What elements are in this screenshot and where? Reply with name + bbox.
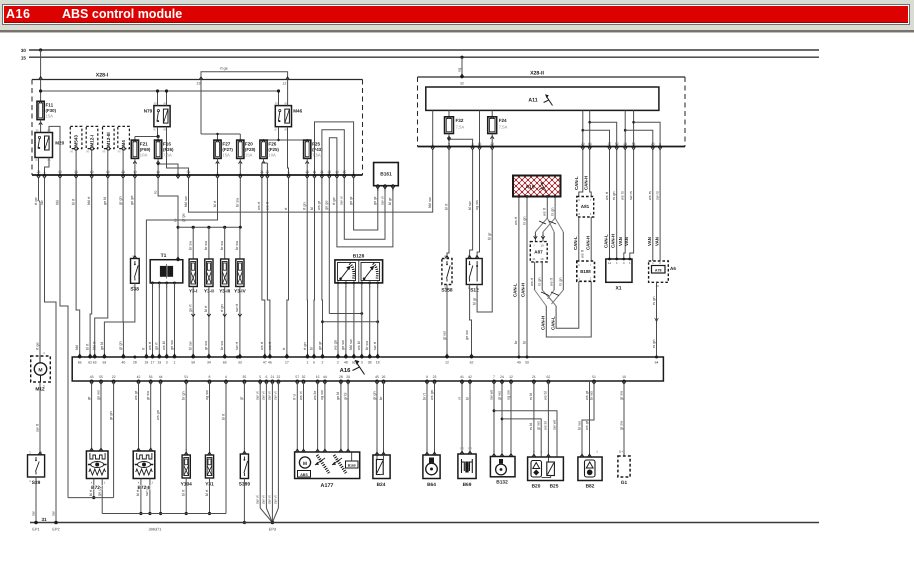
svg-text:ws gn: ws gn: [333, 340, 337, 350]
svg-text:(2): (2): [460, 447, 463, 450]
wire M4 to X28-I pin 29: [122, 149, 124, 175]
sensor B64: [423, 455, 440, 488]
svg-text:87: 87: [153, 128, 157, 132]
svg-text:ge gr: ge gr: [349, 196, 353, 205]
wire valve bus to Y3-III: [220, 226, 226, 259]
wire maze pin 21 to strip pin 2 with tee to B128: [317, 178, 379, 357]
pin row X28-II bottom edge: [431, 142, 662, 150]
svg-text:gn sw: gn sw: [170, 340, 174, 350]
ground EP2: [52, 521, 59, 532]
svg-text:F11: F11: [46, 103, 54, 108]
svg-text:41: 41: [460, 375, 464, 379]
svg-text:63: 63: [588, 142, 592, 146]
wire M46 pin 6 to strip pin 17: [282, 178, 289, 357]
wire F32 to X28-II pins 9 and 8: [448, 134, 473, 147]
svg-text:ws bl: ws bl: [162, 341, 166, 350]
svg-text:96: 96: [70, 150, 74, 154]
svg-text:og sw: og sw: [205, 390, 209, 400]
svg-text:51: 51: [184, 375, 188, 379]
svg-text:G1: G1: [621, 480, 628, 486]
svg-text:VAN: VAN: [618, 237, 623, 246]
svg-text:15A: 15A: [46, 114, 54, 119]
wire A11 to X28-II pin 1: [432, 110, 434, 146]
wire B128 pin to strip pin 48: [341, 283, 348, 357]
sensor pair B20 B25: [528, 451, 564, 490]
wire CAN-H to X1: [611, 150, 617, 259]
svg-text:23: 23: [433, 375, 437, 379]
svg-text:gn rt: gn rt: [155, 341, 159, 350]
hydraulic modulator A177: [295, 449, 360, 489]
wire og from bus 15 to X28-II pin 32: [458, 57, 464, 85]
svg-text:sw vi: sw vi: [340, 196, 344, 205]
wire B128 pin to strip pin 18: [373, 283, 380, 357]
wire from bus 30 to X28-I pin: [39, 50, 43, 80]
wire twisted stub into A87: [534, 232, 545, 242]
svg-text:ws rt: ws rt: [549, 277, 553, 286]
wire strip to A177: [336, 381, 343, 452]
separator line: [0, 30, 914, 32]
svg-text:ws gr: ws gr: [317, 200, 321, 210]
wire hbl sw long link X28-II pin 1 to X28-I pin 51: [184, 150, 433, 212]
svg-text:F25: F25: [312, 141, 320, 146]
svg-text:rs gn: rs gn: [522, 217, 526, 225]
svg-text:10A: 10A: [268, 153, 276, 158]
svg-text:hbl rt: hbl rt: [87, 196, 91, 205]
svg-text:11: 11: [313, 170, 317, 174]
svg-text:B64: B64: [427, 482, 436, 488]
sensor B82: [578, 451, 602, 490]
svg-text:B69: B69: [463, 482, 472, 488]
svg-text:hbl sw: hbl sw: [428, 197, 432, 208]
svg-text:VAN: VAN: [624, 237, 629, 246]
wire strip pin 26 to B24: [379, 381, 386, 455]
svg-text:sw vi: sw vi: [256, 495, 260, 504]
svg-text:21: 21: [271, 375, 275, 379]
svg-text:2: 2: [548, 451, 550, 454]
svg-text:rs gn: rs gn: [652, 340, 656, 348]
svg-text:B161: B161: [380, 172, 392, 178]
svg-text:bl rt: bl rt: [71, 198, 75, 205]
wire S38 to strip pin 40: [119, 283, 135, 357]
svg-text:20: 20: [581, 142, 585, 146]
pin row X28-I bottom edge: [37, 170, 356, 178]
svg-text:hbl rt: hbl rt: [93, 341, 97, 350]
svg-text:ws bl: ws bl: [544, 421, 548, 430]
svg-text:gr gn: gr gn: [109, 411, 113, 420]
pin X28-II top edge 32: [461, 76, 464, 79]
wire F27 to X28-I pin 1: [217, 158, 219, 175]
svg-text:24: 24: [500, 375, 504, 379]
svg-text:(F25): (F25): [268, 147, 279, 152]
svg-text:(F27): (F27): [222, 147, 233, 152]
svg-text:bl gr: bl gr: [472, 297, 476, 305]
svg-text:VAN: VAN: [654, 237, 659, 246]
svg-text:2: 2: [322, 361, 324, 365]
wire bus 30: [21, 48, 819, 53]
wire B128 pin to strip pin 38: [365, 283, 372, 357]
svg-text:3: 3: [40, 451, 42, 455]
svg-text:22: 22: [112, 375, 116, 379]
svg-text:rt ge: rt ge: [332, 197, 336, 205]
wire CAN-H from A16 to strip pin 50: [520, 197, 527, 358]
wire shield bus to strip pin 22: [68, 381, 114, 498]
svg-text:rs bl: rs bl: [529, 423, 533, 430]
svg-text:12: 12: [283, 82, 287, 86]
wire B72-I pin 4 to shield bus: [89, 479, 95, 500]
diagnosis switch S39: [28, 451, 45, 487]
wire link B132 to B20/B25 pin 3: [502, 419, 541, 457]
svg-text:sw rs: sw rs: [655, 191, 659, 200]
speed sensor B132: [490, 457, 515, 486]
svg-text:bl: bl: [465, 397, 469, 400]
svg-text:ge bl: ge bl: [100, 342, 104, 350]
wire A81 to B188 pair: [573, 217, 591, 261]
wire maze pin 11 to strip pin 6: [309, 178, 316, 357]
wire M12 to switch S39: [35, 382, 42, 455]
ABS control module A16 connector strip: [72, 356, 663, 385]
svg-text:14: 14: [608, 261, 612, 265]
svg-text:3: 3: [151, 481, 153, 484]
svg-text:47: 47: [263, 361, 267, 365]
wire S12 pin 1 to strip pin 62: [465, 285, 473, 358]
svg-text:96: 96: [102, 150, 106, 154]
svg-text:1: 1: [581, 451, 583, 454]
svg-text:37: 37: [608, 142, 612, 146]
wire valve supply bus: [178, 213, 241, 227]
svg-text:F27: F27: [222, 141, 230, 146]
svg-text:M4: M4: [121, 140, 126, 147]
svg-text:rt gn: rt gn: [303, 342, 307, 350]
wire bus 31: [30, 517, 819, 523]
svg-text:hbl sw: hbl sw: [349, 339, 353, 350]
svg-text:sw rt: sw rt: [235, 341, 239, 350]
wire Y3-I to strip pin 58: [189, 287, 196, 358]
gateway A81: [577, 197, 594, 218]
svg-text:1: 1: [307, 361, 309, 365]
label B72-II: [137, 485, 151, 491]
sensor B69: [458, 454, 476, 488]
wire A87 down pair: [530, 262, 542, 290]
wheel speed sensor B72-II: [133, 451, 155, 479]
svg-text:B24: B24: [377, 482, 386, 488]
svg-text:38: 38: [368, 361, 372, 365]
svg-text:ge gr: ge gr: [318, 341, 322, 350]
svg-text:18: 18: [376, 361, 380, 365]
wire strip pin 51 to valve Y104: [182, 381, 189, 455]
svg-text:bl rt: bl rt: [213, 200, 217, 207]
svg-text:rt vi: rt vi: [293, 394, 297, 400]
svg-text:20: 20: [346, 375, 350, 379]
svg-text:54: 54: [632, 142, 636, 146]
svg-text:19: 19: [540, 244, 544, 248]
svg-text:ge sw: ge sw: [465, 330, 469, 340]
svg-text:gr ws: gr ws: [537, 421, 541, 430]
wire jumper loop 2 inside X28-I: [322, 130, 344, 175]
svg-text:CAN-H: CAN-H: [611, 234, 616, 248]
svg-text:17: 17: [285, 361, 289, 365]
svg-text:2: 2: [501, 450, 503, 453]
wire strip pin 10 to generator G1: [619, 381, 624, 456]
brake light switch S38: [130, 254, 139, 292]
svg-text:bl: bl: [310, 207, 314, 210]
wire sw X28-I pin 4 to ground EP2: [40, 178, 56, 522]
svg-text:4: 4: [138, 481, 140, 484]
svg-text:rs gn: rs gn: [559, 278, 563, 286]
solenoid valve Y3-III: [219, 259, 230, 294]
svg-text:ws rt: ws rt: [148, 341, 152, 350]
svg-text:ws gn: ws gn: [156, 410, 160, 420]
wire CAN-L from A16 to strip pin 49: [512, 197, 519, 358]
svg-text:F32: F32: [456, 118, 464, 123]
svg-text:32: 32: [460, 82, 464, 86]
svg-text:br ws: br ws: [577, 421, 581, 430]
fuse F26 (F25) 10A: [260, 140, 280, 164]
solenoid valve Y3-I: [189, 259, 197, 294]
svg-text:3: 3: [166, 361, 168, 365]
svg-text:M: M: [303, 461, 307, 467]
wire M20 side to X28-I pin 30: [49, 126, 60, 175]
svg-text:rt gn: rt gn: [220, 304, 224, 312]
wire T1 pin 4 to strip pin 3: [162, 283, 169, 357]
wire strip pin 51 to B82 pin 1: [577, 381, 594, 457]
actuator M4: [117, 126, 129, 153]
svg-text:ws vi: ws vi: [299, 391, 303, 400]
svg-text:CAN-L: CAN-L: [573, 236, 578, 250]
svg-text:21: 21: [532, 257, 536, 261]
svg-text:br gn: br gn: [182, 391, 186, 400]
wire jumper loop 1 inside X28-I: [315, 122, 354, 175]
fuse F32 7,5A: [445, 116, 465, 138]
wire A11 VAN branch 1: [624, 110, 653, 146]
svg-text:21: 21: [320, 170, 324, 174]
svg-text:CAN-L: CAN-L: [603, 234, 608, 248]
wire strip pin 23 to B64: [430, 381, 437, 455]
wire A11 to X28-II pin 13: [479, 110, 481, 146]
svg-text:4: 4: [533, 451, 535, 454]
svg-text:B72-II: B72-II: [137, 485, 151, 491]
svg-text:ge bl: ge bl: [103, 197, 107, 205]
switch S358: [441, 254, 453, 293]
svg-text:ws rt: ws rt: [260, 341, 264, 350]
connector T1: [150, 253, 183, 289]
svg-text:sw rt: sw rt: [373, 341, 377, 350]
svg-text:7: 7: [493, 375, 495, 379]
wire F24 to X28-II pin 22: [491, 134, 493, 147]
wire CAN bypass pair down: [549, 232, 563, 290]
wire strip pin 42 to B69: [465, 381, 472, 454]
wire rail to N79 coil and contact: [156, 89, 168, 105]
wire CAN stub pair from A16 to twist: [543, 197, 556, 219]
wire M46 pin 87 to fuse rail 2: [264, 127, 308, 142]
svg-text:33: 33: [238, 361, 242, 365]
svg-text:1: 1: [556, 451, 558, 454]
svg-text:br sw: br sw: [235, 241, 239, 250]
svg-text:CAN-H: CAN-H: [584, 176, 589, 190]
svg-text:A81: A81: [581, 204, 590, 209]
wire Y3-IV to strip pin 33: [235, 287, 242, 358]
svg-text:rs gn: rs gn: [550, 208, 554, 216]
svg-text:A16: A16: [525, 185, 534, 191]
svg-text:gr sw: gr sw: [146, 391, 150, 400]
wire X28-II pin 9 to switch S358: [444, 150, 449, 259]
svg-text:bl rt: bl rt: [182, 489, 186, 496]
svg-text:21: 21: [532, 375, 536, 379]
wire A11 VAN branch 2: [632, 110, 660, 146]
svg-text:gr gn: gr gn: [119, 341, 123, 350]
svg-text:og: og: [458, 68, 462, 72]
svg-text:23: 23: [37, 170, 41, 174]
svg-text:EP1: EP1: [32, 528, 39, 532]
svg-text:(F69): (F69): [140, 147, 151, 152]
wire VAN pair to A6: [647, 150, 660, 261]
svg-text:64: 64: [655, 361, 659, 365]
wire strip pin 7 to B132: [489, 381, 496, 457]
relay M20: [35, 128, 65, 162]
node on bus 30 feeding X28-I: [39, 48, 42, 51]
node on bus 15 feeding X28-II: [460, 56, 463, 59]
wire M12-I to X28-I pin 13: [91, 149, 93, 175]
title bar ABS control module: [4, 6, 908, 23]
svg-text:44: 44: [323, 375, 327, 379]
wire pin 23 loop riser to fuse rail: [201, 80, 240, 141]
svg-text:40: 40: [122, 361, 126, 365]
svg-text:14: 14: [335, 170, 339, 174]
svg-text:49: 49: [517, 361, 521, 365]
svg-text:3: 3: [104, 481, 106, 484]
svg-text:rt gn: rt gn: [303, 202, 307, 210]
wire hbl rt X28-I pin 13 to strip pin 62: [85, 178, 92, 357]
svg-text:4: 4: [225, 375, 227, 379]
wire strip to A177: [293, 381, 300, 452]
wire F26 pin 21 to strip pin 47: [257, 178, 266, 357]
svg-text:gr ge: gr ge: [182, 213, 186, 222]
svg-text:3: 3: [361, 361, 363, 365]
svg-text:306371: 306371: [149, 528, 162, 532]
svg-text:28: 28: [651, 142, 655, 146]
svg-text:bl: bl: [309, 347, 313, 350]
svg-text:96: 96: [86, 150, 90, 154]
svg-text:10: 10: [156, 170, 160, 174]
wire B128 pin to strip pin 2: [333, 283, 340, 357]
svg-text:69: 69: [103, 361, 107, 365]
wire bus 2 collector to strip pin 4: [102, 381, 226, 514]
fuse F25 (F43) 7,5A: [304, 140, 324, 164]
svg-text:sw ws: sw ws: [489, 390, 493, 400]
svg-text:69: 69: [223, 361, 227, 365]
svg-text:CAN-L: CAN-L: [574, 176, 579, 190]
svg-text:A16: A16: [340, 367, 351, 374]
separator line 2: [0, 32, 914, 33]
svg-text:29: 29: [623, 142, 627, 146]
svg-text:sw vi: sw vi: [274, 391, 278, 400]
wire X28-II to A81 pair: [574, 150, 591, 197]
wire X28-II pin 13 to switch S12 pin 3: [475, 150, 480, 259]
svg-text:sw: sw: [51, 511, 55, 516]
svg-text:CAN-H: CAN-H: [520, 283, 525, 297]
svg-text:19: 19: [157, 361, 161, 365]
wire A11 to fuse F32: [448, 110, 450, 116]
wire N79 pin 87 to fuse rail: [135, 127, 160, 140]
actuator M543: [70, 126, 82, 153]
window chrome strip: [0, 0, 914, 30]
wire strip to A177: [299, 381, 306, 452]
svg-text:T1: T1: [161, 253, 167, 259]
svg-text:7,5A: 7,5A: [163, 153, 172, 158]
svg-text:M46: M46: [293, 109, 302, 114]
svg-text:ws gn: ws gn: [430, 390, 434, 400]
svg-text:26: 26: [305, 170, 309, 174]
svg-text:sw vi: sw vi: [256, 391, 260, 400]
svg-text:B72-I: B72-I: [91, 485, 103, 491]
svg-text:4: 4: [44, 170, 46, 174]
svg-text:45: 45: [375, 375, 379, 379]
svg-text:br rt: br rt: [422, 392, 426, 400]
title bar frame: [2, 4, 910, 25]
wire B72-II pin 4 to bus 2: [136, 479, 142, 516]
svg-text:10A: 10A: [140, 153, 148, 158]
svg-text:gr sw: gr sw: [619, 391, 623, 400]
svg-text:ws rt: ws rt: [514, 216, 518, 225]
wire valve bus to Y3-IV: [235, 227, 240, 259]
wire A11 CAN high branch: [588, 110, 616, 146]
svg-text:1: 1: [244, 448, 246, 451]
svg-text:12: 12: [509, 375, 513, 379]
svg-text:M12-I: M12-I: [90, 135, 95, 147]
svg-text:96: 96: [117, 150, 121, 154]
fuse F16 (F26) 7,5A: [155, 140, 175, 164]
svg-text:ws rt: ws rt: [268, 341, 272, 350]
svg-text:rs bl: rs bl: [529, 393, 533, 400]
svg-text:63: 63: [93, 361, 97, 365]
svg-text:rt ge: rt ge: [34, 197, 38, 205]
wire T1 pin 2 to strip pin 17: [148, 283, 155, 357]
svg-text:6: 6: [313, 361, 315, 365]
ABS control module A16 hatched box: [513, 176, 561, 199]
svg-text:ws bl: ws bl: [544, 391, 548, 400]
wire valve bus to Y3-II: [204, 226, 210, 259]
svg-text:sw rt: sw rt: [235, 303, 239, 312]
svg-text:1: 1: [376, 449, 378, 452]
svg-text:1: 1: [174, 361, 176, 365]
svg-text:rt: rt: [142, 347, 146, 350]
svg-text:ws rt: ws rt: [543, 207, 547, 216]
svg-text:A: A: [534, 233, 536, 237]
wire rt ge loop pin 23 to pin 12: [197, 66, 290, 85]
svg-text:51: 51: [592, 375, 596, 379]
return pump motor M12: [31, 351, 51, 393]
svg-text:M12-III: M12-III: [106, 132, 111, 146]
svg-text:9: 9: [426, 375, 428, 379]
svg-text:gn ws: gn ws: [96, 390, 100, 400]
svg-text:gn ge: gn ge: [325, 200, 329, 210]
wire gn ge X28-I pin 18 to brake switch S38: [130, 178, 137, 258]
svg-text:br ws: br ws: [589, 391, 593, 400]
svg-text:B169: B169: [348, 464, 356, 468]
wire M20 pin 87 to X28-I pin 23: [38, 158, 40, 176]
svg-text:br sw: br sw: [204, 241, 208, 250]
svg-text:M543: M543: [74, 135, 79, 147]
svg-text:bl sw: bl sw: [189, 341, 193, 350]
svg-text:1: 1: [426, 449, 428, 452]
svg-text:br sw: br sw: [365, 341, 369, 350]
svg-text:52: 52: [615, 142, 619, 146]
wire B72-I pin 3 to bus 2: [98, 479, 106, 514]
wire link B132 to B20/B25 pin 1: [494, 411, 557, 457]
svg-text:28: 28: [339, 375, 343, 379]
wire strip pin 45 to B24: [372, 381, 379, 455]
svg-text:ABS: ABS: [300, 473, 308, 477]
svg-text:87: 87: [274, 128, 278, 132]
